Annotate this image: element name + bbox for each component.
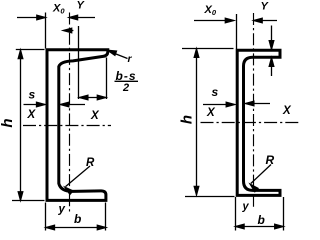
Y axis right (253, 13, 255, 209)
svg-text:b: b (74, 212, 81, 226)
extension line web outer top right (236, 14, 238, 49)
svg-text:s: s (29, 88, 36, 102)
Y axis (vertical centerline) left (69, 13, 71, 213)
b extension lines left (46, 203, 106, 231)
h extension top right (182, 48, 234, 50)
s dim arrows right (203, 104, 234, 106)
b dim right (236, 226, 283, 228)
X-X axis left (23, 125, 111, 127)
svg-text:R: R (266, 153, 275, 167)
small t arrow left (64, 30, 73, 32)
extension line flange-mid left (78, 26, 80, 99)
svg-text:2: 2 (122, 82, 129, 94)
svg-text:b: b (258, 213, 265, 227)
h extension top left (16, 49, 45, 51)
dim X0 left: arrows (37, 15, 46, 20)
extension line web outer top left (45, 13, 47, 49)
R leader right (251, 165, 271, 184)
svg-text:y: y (242, 201, 250, 213)
dim (b-s)/2 line (80, 97, 106, 99)
svg-text:X: X (90, 110, 100, 122)
h dim line right (196, 50, 198, 194)
svg-text:y: y (58, 204, 66, 216)
h extension bottom right (185, 196, 235, 198)
fraction bar (b-s)/2 (115, 80, 139, 82)
R leader left (66, 166, 91, 187)
svg-text:s: s (212, 85, 219, 99)
svg-text:X: X (206, 107, 216, 119)
svg-text:h: h (179, 115, 196, 124)
b dim left (47, 227, 106, 229)
channel outline right (237, 50, 280, 195)
r leader left (108, 51, 127, 59)
extension line flange tip left (106, 58, 108, 100)
dim X0 left: line (17, 17, 95, 19)
h extension bottom left (12, 200, 45, 202)
s dim arrows left (24, 104, 45, 106)
t dim arrows right (271, 26, 273, 49)
svg-text:X: X (27, 109, 37, 121)
svg-text:R: R (86, 157, 95, 169)
channel outline left (47, 50, 108, 201)
b extension lines right (236, 197, 284, 231)
svg-text:h: h (0, 118, 16, 127)
h dim line left (20, 51, 22, 200)
svg-text:X: X (282, 105, 292, 117)
svg-text:b-s: b-s (116, 69, 137, 83)
dim X0 right (194, 20, 277, 22)
X-X axis right (201, 122, 299, 124)
